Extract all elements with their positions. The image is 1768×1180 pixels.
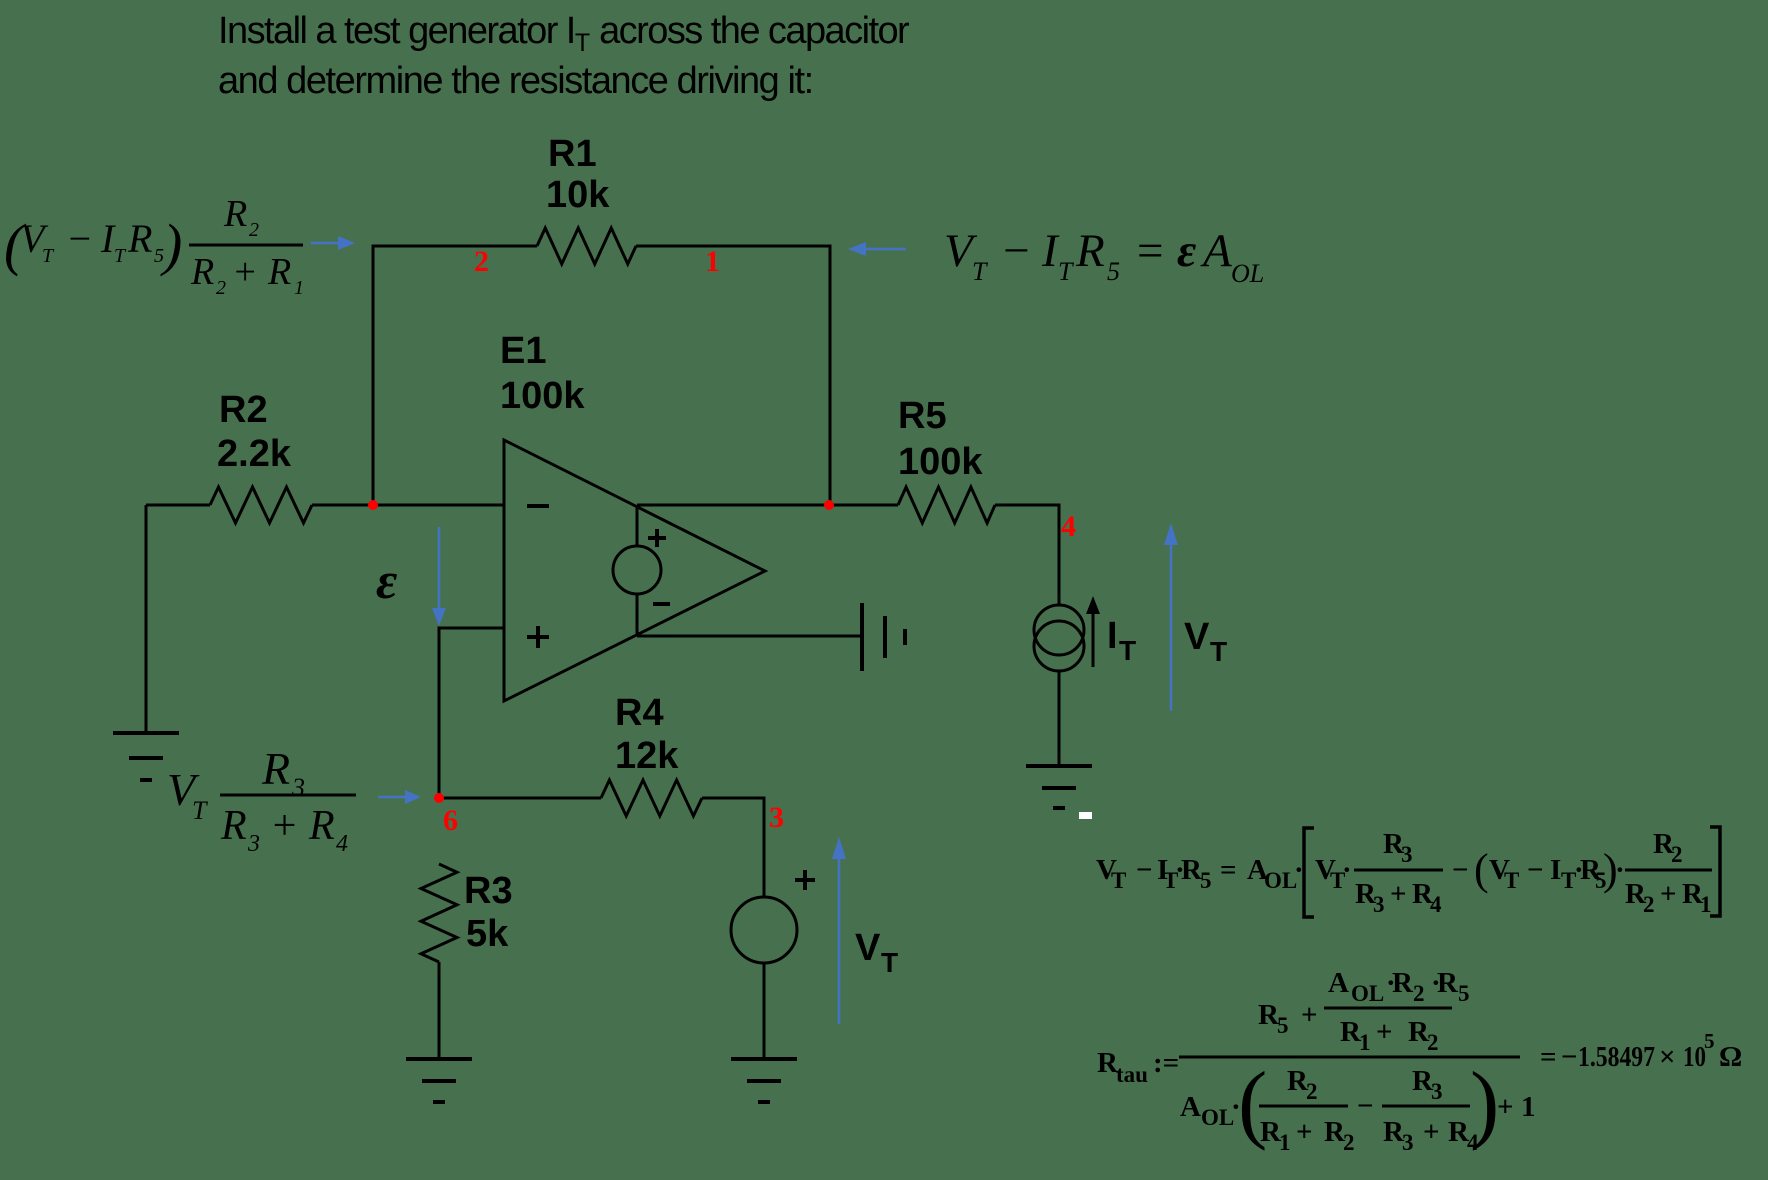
resistor R4 [601, 780, 702, 816]
svg-text:R: R [308, 803, 335, 849]
svg-text:T: T [42, 245, 55, 267]
wire R2 left [146, 504, 210, 507]
svg-text:1: 1 [705, 245, 720, 278]
svg-text:−: − [1136, 854, 1153, 886]
svg-text:Install a test generator IT ac: Install a test generator IT across the c… [218, 10, 910, 57]
svg-text:2: 2 [1671, 842, 1683, 867]
wire R4 to node 3 corner [702, 798, 764, 898]
svg-text:(: ( [1474, 845, 1489, 894]
arrow eq top-right (blue left) [848, 242, 906, 256]
E source minus mark [653, 602, 670, 606]
svg-text:+: + [270, 803, 298, 849]
svg-text:2: 2 [1306, 1079, 1318, 1104]
svg-text:100k: 100k [500, 375, 585, 417]
svg-text:·: · [1294, 854, 1304, 886]
svg-text:·: · [1615, 854, 1625, 886]
svg-text:OL: OL [1231, 259, 1264, 288]
node 6 wire to R4 [439, 797, 601, 800]
svg-text:1: 1 [1521, 1091, 1536, 1123]
svg-text:T: T [114, 245, 127, 267]
svg-text:I: I [1107, 615, 1118, 657]
VT source plus [795, 870, 815, 890]
svg-text:R: R [1075, 225, 1105, 277]
svg-text:A: A [1328, 967, 1349, 999]
svg-text:1: 1 [1700, 892, 1712, 917]
svg-text:OL: OL [1264, 868, 1297, 893]
svg-text:3: 3 [1402, 1130, 1414, 1155]
svg-text:2: 2 [216, 277, 226, 299]
op-amp E1 [504, 440, 765, 701]
svg-text:A: A [1200, 225, 1232, 277]
resistor R1 [537, 228, 636, 264]
VT source bottom wire [763, 963, 766, 1059]
svg-text:1: 1 [1359, 1030, 1371, 1055]
svg-text:1: 1 [294, 277, 304, 299]
svg-text:100k: 100k [898, 441, 983, 483]
svg-text:R4: R4 [615, 692, 664, 734]
plus input mark [527, 626, 549, 648]
IT arrow (black up) [1086, 596, 1100, 667]
wire R1 to right corner [636, 246, 830, 505]
svg-text:·: · [1342, 854, 1352, 886]
svg-text:): ) [1470, 1055, 1499, 1152]
VT arrow right (blue up) [1164, 523, 1178, 711]
svg-text:1.58497: 1.58497 [1578, 1041, 1655, 1073]
node 6 dot [434, 793, 444, 803]
ground left [113, 733, 179, 780]
svg-text:2: 2 [474, 245, 489, 278]
svg-text:3: 3 [1431, 1079, 1443, 1104]
wire left ground drop [145, 505, 148, 733]
svg-text:6: 6 [443, 804, 458, 837]
svg-text:2: 2 [1643, 892, 1655, 917]
VT source circle [731, 897, 797, 963]
svg-text:R3: R3 [464, 870, 513, 912]
white dash [1079, 812, 1092, 819]
arrow eq mid-left (blue right) [378, 790, 421, 804]
arrow eq top-left (blue right) [311, 236, 355, 250]
svg-text:tau: tau [1116, 1062, 1148, 1087]
svg-text:2: 2 [1413, 981, 1425, 1006]
wire R2 to op-amp minus [312, 504, 504, 507]
svg-text:+: + [1376, 1016, 1393, 1048]
svg-text:R: R [261, 743, 290, 794]
wire feedback top loop [373, 246, 537, 505]
svg-text:T: T [1210, 636, 1227, 667]
svg-text::=: := [1153, 1047, 1179, 1079]
svg-text:5: 5 [1277, 1013, 1289, 1038]
E source plus mark [648, 529, 666, 547]
E source circle [613, 546, 661, 594]
svg-text:): ) [160, 212, 182, 277]
svg-text:OL: OL [1201, 1105, 1234, 1130]
svg-text:×: × [1659, 1041, 1676, 1073]
svg-text:−: − [1452, 854, 1469, 886]
svg-text:+: + [1423, 1116, 1440, 1148]
svg-text:V: V [855, 927, 881, 969]
svg-text:5: 5 [1200, 868, 1212, 893]
minus input mark [527, 504, 549, 508]
svg-text:4: 4 [1430, 892, 1442, 917]
svg-text:3: 3 [1401, 842, 1413, 867]
output wire [637, 504, 898, 507]
svg-text:4: 4 [336, 831, 348, 857]
svg-text:T: T [1119, 635, 1136, 666]
svg-text:5: 5 [1107, 257, 1120, 286]
svg-text:2: 2 [1343, 1130, 1355, 1155]
svg-text:1: 1 [1279, 1130, 1291, 1155]
svg-text:+: + [232, 251, 258, 293]
main bar [1179, 1056, 1520, 1059]
svg-text:R: R [1392, 967, 1414, 999]
epsilon arrow (blue down) [432, 527, 446, 626]
svg-text:=: = [1220, 854, 1237, 886]
svg-text:5: 5 [1704, 1029, 1715, 1053]
eq top-left: (VT - IT R5) R2/(R2+R1) [4, 193, 304, 299]
svg-text:T: T [1058, 257, 1074, 286]
svg-text:+: + [1301, 999, 1318, 1031]
svg-text:4: 4 [1061, 510, 1076, 543]
svg-text:=: = [1540, 1041, 1557, 1073]
resistor R3 (vertical) [421, 864, 457, 962]
svg-text:5k: 5k [466, 913, 509, 955]
svg-text:5: 5 [1458, 981, 1470, 1006]
VT arrow bottom (blue up) [832, 837, 846, 1024]
svg-text:E1: E1 [500, 330, 546, 372]
svg-text:2.2k: 2.2k [217, 433, 292, 475]
wire R3 to ground [438, 962, 441, 1059]
svg-text:−: − [1561, 1041, 1578, 1073]
svg-text:−: − [1000, 225, 1032, 277]
svg-text:3: 3 [769, 801, 784, 834]
svg-text:+: + [1497, 1091, 1514, 1123]
lower wire to battery [637, 635, 862, 638]
node junction dot A [368, 500, 378, 510]
svg-text:R1: R1 [548, 133, 597, 175]
resistor R2 [210, 487, 312, 523]
wire R5 to corner 4 [995, 505, 1059, 605]
bracket [ [1304, 828, 1314, 917]
plus input wire [439, 628, 504, 798]
current source bottom wire [1058, 671, 1061, 766]
E source internal: top lead [636, 507, 639, 546]
ground under VT source [731, 1059, 797, 1102]
svg-text:3: 3 [247, 831, 260, 857]
eq top-right: VT - IT R5 = eps AOL [944, 225, 1264, 288]
svg-text:R: R [223, 193, 247, 235]
svg-text:R: R [1437, 967, 1459, 999]
svg-text:T: T [1504, 868, 1519, 893]
svg-text:T: T [192, 796, 208, 825]
svg-text:T: T [972, 257, 988, 286]
svg-text:3: 3 [1373, 892, 1385, 917]
svg-text:and determine the resistance d: and determine the resistance driving it: [218, 60, 813, 102]
mathcad eq 2: Rtau [1097, 967, 1742, 1155]
ground under IT [1026, 766, 1092, 808]
svg-text:2: 2 [249, 219, 259, 241]
svg-text:I: I [1550, 854, 1561, 886]
svg-text:R: R [190, 251, 214, 293]
mathcad eq 1: VT - IT.R5 = AOL[ VT.R3/(R3+R4) - (VT-IT.R5).R2/(R2+R1) ] [1096, 854, 1304, 893]
ground under R3 [406, 1059, 472, 1102]
svg-text:+: + [1660, 878, 1677, 910]
resistor R5 [898, 487, 995, 523]
bracket ] [1710, 827, 1720, 916]
svg-text:R5: R5 [898, 395, 947, 437]
eq mid-left: VT R3/(R3+R4) [167, 743, 356, 857]
svg-text:OL: OL [1351, 981, 1384, 1006]
svg-text:12k: 12k [615, 735, 679, 777]
svg-text:3: 3 [291, 773, 305, 802]
svg-text:−: − [1357, 1090, 1374, 1122]
svg-text:Ω: Ω [1719, 1041, 1742, 1073]
svg-text:ε: ε [1177, 225, 1196, 277]
svg-text:R: R [220, 803, 247, 849]
svg-text:V: V [1184, 616, 1210, 658]
svg-text:−: − [1527, 854, 1544, 886]
svg-text:R: R [127, 216, 152, 261]
E source bottom lead [636, 594, 639, 635]
svg-text:ε: ε [376, 553, 397, 610]
svg-text:=: = [1134, 225, 1166, 277]
svg-text:A: A [1180, 1091, 1201, 1123]
svg-text:R: R [267, 251, 291, 293]
svg-text:T: T [881, 947, 898, 978]
battery bars [862, 603, 905, 671]
svg-text:−: − [66, 216, 93, 261]
svg-text:10: 10 [1683, 1041, 1706, 1073]
svg-text:T: T [1111, 868, 1126, 893]
current source IT circles [1034, 605, 1084, 655]
svg-text:+: + [1296, 1116, 1313, 1148]
output node dot [824, 500, 834, 510]
svg-text:R2: R2 [219, 389, 268, 431]
svg-text:10k: 10k [546, 174, 610, 216]
svg-text:+: + [1390, 878, 1407, 910]
svg-text:2: 2 [1427, 1030, 1439, 1055]
